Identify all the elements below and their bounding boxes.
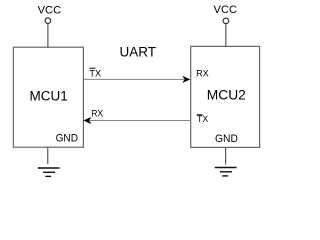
MCU1 block	[13, 47, 83, 147]
wire VCC to MCU2 top	[225, 24, 227, 46]
power VCC (left): open circle terminal	[45, 18, 51, 24]
svg-text:RX: RX	[91, 108, 104, 119]
arrowhead into RX pin (MCU1)	[83, 117, 91, 124]
ground symbol (right): bars	[215, 167, 237, 169]
ground symbol (left): bars	[38, 167, 60, 169]
svg-text:GND: GND	[215, 133, 238, 145]
svg-text:TX: TX	[197, 114, 209, 125]
power VCC (right): open circle terminal	[223, 18, 229, 24]
wire TX(MCU2) to RX(MCU1)	[90, 120, 191, 122]
wire VCC to MCU1 top	[47, 24, 49, 48]
ground symbol (left): stem wire	[47, 148, 49, 165]
overline of TX (MCU2)	[197, 114, 203, 116]
svg-text:TX: TX	[89, 68, 101, 79]
svg-text:RX: RX	[196, 69, 209, 80]
svg-text:MCU2: MCU2	[207, 88, 246, 103]
svg-text:GND: GND	[56, 132, 78, 144]
MCU2 block	[191, 46, 260, 147]
overline of TX (MCU1)	[89, 67, 95, 69]
svg-text:UART: UART	[120, 45, 157, 60]
ground symbol (right): stem wire	[225, 148, 227, 165]
svg-text:MCU1: MCU1	[29, 89, 67, 104]
svg-text:VCC: VCC	[214, 4, 238, 16]
svg-text:VCC: VCC	[38, 5, 62, 17]
arrowhead into RX pin (MCU2)	[182, 76, 190, 83]
wire TX(MCU1) to RX(MCU2)	[83, 78, 184, 80]
